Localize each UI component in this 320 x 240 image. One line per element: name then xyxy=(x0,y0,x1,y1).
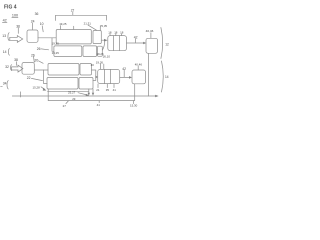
muffler M2 (three chambers, bottom) xyxy=(98,69,120,83)
svg-text:38: 38 xyxy=(14,58,18,62)
svg-text:FIG 4: FIG 4 xyxy=(4,5,17,11)
rectangle lower chain row B big xyxy=(47,78,78,90)
wire R1b to muffler M1 with arrow xyxy=(101,39,107,42)
svg-text:21: 21 xyxy=(96,88,100,92)
box 40,46 (top tail box) xyxy=(146,38,158,53)
bottom flow line 1 with arrow xyxy=(12,95,158,98)
label 21 below M2 xyxy=(96,84,100,92)
svg-text:19,25: 19,25 xyxy=(52,41,60,45)
label 19,25 upper leader xyxy=(59,22,67,29)
wire M1 to box 40,46 with arrow xyxy=(127,42,147,45)
label 40,46 lower xyxy=(135,63,143,70)
rectangle 19,25 second row big xyxy=(54,46,82,57)
label 42 (lower pipe) xyxy=(122,67,126,77)
drop pipe 2 to line 1 with arrow xyxy=(92,89,94,96)
label 26 (branch) xyxy=(37,47,49,51)
muffler 18 (three chambers, top) xyxy=(108,36,127,51)
label 36 xyxy=(16,24,20,33)
wire M2 to box C with arrow xyxy=(120,76,132,79)
rectangle lower chain row A big xyxy=(48,64,79,76)
svg-text:29: 29 xyxy=(72,97,76,101)
label 10 xyxy=(40,22,44,32)
rectangle lower chain row B small xyxy=(79,78,93,90)
label 41 below M2 xyxy=(113,84,117,92)
block arrow 36 (top inlet) xyxy=(10,36,23,43)
tail pipe down from lower box xyxy=(134,84,136,101)
svg-text:36: 36 xyxy=(35,12,39,16)
svg-text:20: 20 xyxy=(91,63,95,67)
block arrow 38 (lower inlet) xyxy=(12,65,23,72)
label 41 xyxy=(97,101,101,107)
label 35 below M2 xyxy=(106,84,110,92)
svg-text:10: 10 xyxy=(40,22,44,26)
svg-text:13: 13 xyxy=(2,34,6,38)
reference 100 (underlined) xyxy=(12,13,18,17)
svg-text:26: 26 xyxy=(31,53,35,57)
label 34 with bracket xyxy=(1,81,9,89)
rectangle lower chain row A small xyxy=(80,64,92,76)
svg-text:20: 20 xyxy=(35,58,39,62)
brace 2 over top chain xyxy=(56,15,107,20)
wire branch down to R2 xyxy=(52,38,54,52)
label 32 with bracket xyxy=(5,65,12,71)
bottom flow line 2 xyxy=(48,100,135,102)
svg-text:25,27: 25,27 xyxy=(68,90,76,94)
rectangle second row small xyxy=(98,46,103,56)
drop pipe under RB1 to line 2 xyxy=(47,89,49,101)
svg-text:26: 26 xyxy=(37,47,41,51)
tick on line 1 xyxy=(20,92,22,97)
reference 42 (underlined) xyxy=(2,18,7,22)
rectangle second row middle xyxy=(83,46,97,57)
label 26 above box xyxy=(31,53,35,62)
svg-text:12: 12 xyxy=(165,43,169,47)
label 21,31 xyxy=(84,22,97,31)
svg-text:100: 100 xyxy=(12,13,18,17)
svg-text:15,28: 15,28 xyxy=(33,86,41,90)
svg-text:25,35: 25,35 xyxy=(100,24,108,28)
svg-text:34: 34 xyxy=(3,82,7,86)
label 27 xyxy=(63,101,69,108)
label 14 with bracket xyxy=(3,49,10,56)
label 19,26 above M2 xyxy=(96,61,104,70)
bracket 14 (lower right) xyxy=(162,61,169,92)
wire branch down to RB1 xyxy=(44,70,48,84)
svg-text:40,46: 40,46 xyxy=(146,29,154,33)
label 25,27 xyxy=(68,90,89,96)
wire box24 to R1 xyxy=(38,37,56,39)
label 25,35 xyxy=(100,24,108,31)
box 40,46 (lower tail box) xyxy=(132,70,146,84)
label 38 xyxy=(14,58,18,65)
wire box26 to RA1 xyxy=(34,69,48,71)
collector line under row B xyxy=(48,90,89,92)
label 20 xyxy=(35,58,44,63)
svg-text:14: 14 xyxy=(165,75,169,79)
svg-text:32: 32 xyxy=(5,65,9,69)
svg-text:15,30: 15,30 xyxy=(130,104,138,108)
svg-text:19,25: 19,25 xyxy=(52,51,60,55)
merge wires into muffler M2 xyxy=(92,70,99,80)
box 26 (U2 lower-left) xyxy=(22,63,34,75)
label 27 above brace xyxy=(71,9,75,30)
label 20 above M2 xyxy=(91,63,95,67)
svg-text:35: 35 xyxy=(106,88,110,92)
svg-text:19,26: 19,26 xyxy=(96,61,104,65)
box 24 (U1 top-left) xyxy=(27,30,38,42)
label 42 (top pipe) xyxy=(134,35,138,43)
label 15,28 xyxy=(33,86,47,91)
svg-text:22: 22 xyxy=(27,76,31,80)
labels 18 18 18 xyxy=(108,31,123,36)
svg-text:21,31: 21,31 xyxy=(84,22,92,26)
label 15,30 xyxy=(130,101,138,108)
svg-text:41: 41 xyxy=(97,103,101,107)
label 24 xyxy=(31,20,35,30)
svg-text:14: 14 xyxy=(3,50,7,54)
bracket 12 (top right) xyxy=(161,28,169,59)
svg-text:26,10: 26,10 xyxy=(103,54,111,58)
drop pipe to line 1 with arrow xyxy=(88,89,90,96)
svg-text:42: 42 xyxy=(3,18,7,22)
label 40,46 top xyxy=(146,29,154,38)
rectangle 19,25 top row big (catalyst) xyxy=(56,30,91,44)
label 22 (branch) xyxy=(27,76,43,80)
rectangle top row small xyxy=(93,31,101,44)
wire R2b merge diagonal xyxy=(102,41,105,50)
svg-text:41: 41 xyxy=(113,88,117,92)
svg-text:27: 27 xyxy=(63,104,67,108)
tail pipe down from top box xyxy=(148,53,150,96)
label 13 with bracket xyxy=(2,33,9,41)
